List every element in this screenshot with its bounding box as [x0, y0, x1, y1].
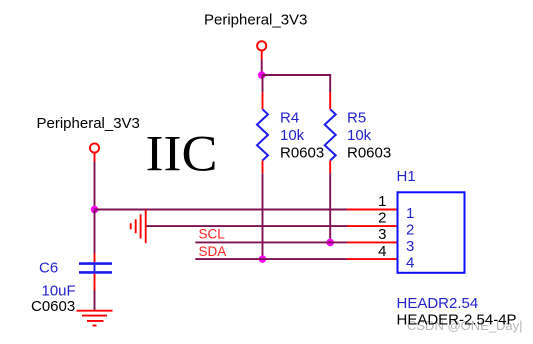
svg-text:1: 1 [378, 193, 386, 210]
svg-text:SDA: SDA [199, 244, 227, 259]
svg-text:R5: R5 [347, 110, 366, 127]
svg-text:4: 4 [378, 243, 386, 260]
pin 3 stub (red) [347, 241, 398, 243]
wire R4 branch top [262, 75, 264, 92]
junction node at top rail [258, 71, 266, 79]
junction node R4 to SDA [259, 255, 267, 263]
svg-text:C0603: C0603 [31, 298, 75, 315]
svg-text:H1: H1 [397, 168, 416, 185]
wire SCL net horizontal [195, 241, 347, 243]
earth ground (below C6) [77, 311, 113, 326]
wire left power port down to node [94, 162, 96, 210]
pin stub from top power port [261, 51, 263, 60]
pin 1 stub (red) [347, 209, 398, 211]
connector H1 body [398, 192, 465, 272]
pin 2 stub (red) [347, 225, 398, 227]
svg-text:Peripheral_3V3: Peripheral_3V3 [37, 115, 140, 132]
svg-text:2: 2 [406, 221, 414, 238]
svg-text:3: 3 [378, 226, 386, 243]
resistor R5 [325, 92, 336, 173]
wire R5 branch top [329, 74, 331, 92]
wire R5 branch down to SCL line [329, 173, 331, 242]
svg-text:2: 2 [378, 210, 386, 227]
svg-text:R0603: R0603 [280, 145, 324, 162]
svg-text:IIC: IIC [146, 126, 218, 182]
svg-text:4: 4 [406, 254, 414, 271]
pin stub from left power port [94, 153, 96, 162]
wire pin2 GND net horizontal [146, 225, 347, 227]
svg-text:1: 1 [406, 205, 414, 222]
svg-text:R4: R4 [280, 110, 299, 127]
wire SDA net horizontal [195, 258, 347, 260]
power port circle (top Peripheral_3V3) [257, 41, 266, 50]
wire from top power port down to node [261, 60, 263, 76]
power port circle (left Peripheral_3V3) [90, 143, 99, 152]
junction node R5 to SCL [326, 239, 334, 247]
wire R4 branch down to SDA line [262, 173, 264, 259]
svg-text:Peripheral_3V3: Peripheral_3V3 [204, 12, 307, 29]
junction node left rail [91, 206, 99, 214]
svg-text:HEADER-2.54-4P: HEADER-2.54-4P [397, 312, 517, 329]
svg-text:SCL: SCL [199, 227, 226, 242]
wire capacitor to ground [94, 291, 96, 311]
capacitor C6 [79, 253, 112, 291]
wire node to capacitor C6 [94, 210, 96, 254]
pin 4 stub (red) [347, 258, 398, 260]
svg-text:10k: 10k [280, 127, 305, 144]
wire top rail horizontal to R5 branch [262, 74, 331, 76]
resistor R4 [257, 92, 268, 173]
svg-text:3: 3 [406, 238, 414, 255]
svg-text:10k: 10k [347, 127, 372, 144]
wire pin1 net horizontal [95, 209, 348, 211]
svg-text:C6: C6 [39, 259, 58, 276]
svg-text:R0603: R0603 [347, 145, 391, 162]
svg-text:HEADR2.54: HEADR2.54 [397, 295, 479, 312]
earth ground (rotated, on pin2 net) [131, 210, 146, 244]
